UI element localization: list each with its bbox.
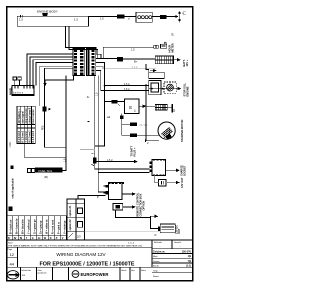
relay branch down (121, 114, 123, 136)
starter post connector (155, 105, 167, 110)
svg-text:Br = brown br: Br = brown br (15, 218, 18, 234)
svg-text:G = green gn: G = green gn (33, 219, 36, 234)
grey feed to capacitor (155, 176, 177, 183)
wire to panel pin2 (30, 57, 73, 85)
oil switch branch (122, 123, 130, 125)
charge socket label (vertical) (181, 165, 187, 176)
inline connector with lock (112, 100, 120, 106)
svg-text:Bl = blue blw: Bl = blue blw (21, 219, 24, 234)
wire to panel pin4 (36, 63, 73, 86)
svg-text:12: 12 (10, 252, 15, 257)
svg-text:B 1.5 mm2: B 1.5 mm2 (19, 130, 21, 142)
svg-text:only if applicable: only if applicable (12, 178, 15, 199)
battery terminal marks (179, 11, 181, 23)
svg-text:FOR EPS10000E / 12000TE / 1500: FOR EPS10000E / 12000TE / 15000TE (40, 261, 135, 267)
control box (103, 183, 124, 200)
svg-text:PANEL: PANEL (10, 87, 13, 95)
svg-text:ENGINE BODY: ENGINE BODY (37, 10, 58, 14)
svg-text:OPTION: OPTION (143, 201, 146, 211)
svg-text:(M): (M) (44, 176, 48, 179)
svg-text:1.5: 1.5 (74, 17, 78, 21)
control box labels (vertical) (137, 192, 146, 216)
bus pin ticks (21, 15, 23, 17)
svg-text:1.5 d: 1.5 d (124, 83, 130, 86)
branch arrow (151, 216, 155, 217)
svg-text:PLUS +: PLUS + (133, 147, 136, 156)
note square (8, 207, 12, 211)
feed wire lower (96, 71, 149, 91)
svg-text:Maßstab: Maßstab (154, 241, 163, 244)
hour meter (161, 42, 167, 48)
aux feed wire (96, 195, 105, 197)
note marker (vertical) (10, 165, 14, 198)
svg-text:12V OUT: 12V OUT (181, 177, 184, 188)
svg-text:stop solenoid: stop solenoid (25, 108, 28, 124)
svg-text:STARTER MOTOR: STARTER MOTOR (180, 119, 184, 142)
wire (123, 58, 155, 60)
svg-text:G: G (32, 237, 34, 240)
svg-text:R 1.5 mm2: R 1.5 mm2 (22, 130, 24, 142)
wiring table (17, 106, 35, 143)
svg-text:(1:1): (1:1) (186, 265, 191, 268)
svg-text:Blatt: Blatt (153, 255, 158, 258)
svg-text:EUROPOWER: EUROPOWER (81, 272, 109, 277)
svg-text:hour counter: hour counter (32, 109, 35, 123)
svg-text:Datum: Datum (153, 260, 160, 263)
svg-text:B+: B+ (134, 59, 138, 63)
engine ground bus box (17, 16, 88, 26)
svg-text:E.: E. (172, 33, 175, 37)
relay coil box (149, 72, 164, 78)
inline connector (160, 15, 167, 19)
svg-text:W = white wt: W = white wt (45, 219, 48, 234)
svg-text:Bearb.: Bearb. (153, 265, 160, 268)
arrowed battery branch (95, 161, 135, 163)
svg-text:Gr: Gr (38, 237, 41, 240)
svg-text:W 1.5 mm2: W 1.5 mm2 (30, 130, 32, 143)
svg-text:1.5: 1.5 (19, 17, 23, 21)
svg-text:V 1.2: V 1.2 (132, 66, 138, 69)
svg-text:12V +: 12V + (185, 59, 189, 66)
optional wire (grey) (40, 67, 73, 107)
arrow to battery + (174, 59, 178, 61)
wire to starter post (146, 105, 155, 107)
wire connector X1 to fuel solenoid (63, 76, 66, 171)
bottom row cells (21, 267, 141, 281)
svg-text:1.5: 1.5 (100, 17, 104, 21)
svg-text:12V battery +: 12V battery + (18, 108, 21, 123)
fuse link on panel feed (43, 107, 47, 112)
wire to fuse link (45, 68, 73, 106)
title block (7, 240, 193, 281)
wire option table to aux (78, 196, 96, 199)
svg-text:1_0_5: 1_0_5 (128, 243, 135, 245)
svg-text:44: 44 (10, 262, 15, 267)
wire to panel pin1 (27, 54, 73, 85)
svg-text:Gr = grey gr: Gr = grey gr (39, 220, 42, 234)
wire through relay (149, 88, 178, 90)
capacitor box (159, 180, 166, 186)
drawing frame (7, 7, 193, 281)
svg-text:Y = yellow gl: Y = yellow gl (27, 219, 30, 234)
inline connector (117, 57, 123, 62)
relay output arrow (139, 105, 143, 107)
svg-text:option A2: option A2 (69, 219, 72, 231)
motor ground wire (146, 140, 159, 142)
fuse holder F1 (136, 12, 152, 22)
svg-text:charge lamp B: charge lamp B (30, 107, 32, 123)
svg-text:Uten: Uten (38, 269, 42, 272)
svg-text:SOCKET: SOCKET (184, 165, 187, 176)
svg-text:start signal: start signal (21, 111, 24, 124)
sub box (113, 204, 123, 211)
connector X1 left half (73, 48, 85, 75)
stop solenoid pilot wire (146, 64, 149, 72)
starter relay S (118, 99, 140, 114)
control panel terminal strip (12, 85, 34, 95)
svg-text:1.5 b: 1.5 b (9, 142, 12, 148)
svg-text:R: R (50, 237, 52, 240)
hour meter label (vertical) (168, 43, 175, 52)
wire with arrow to battery (167, 16, 176, 18)
svg-text:Bl: Bl (20, 237, 23, 240)
wire from table to fuel solenoid (25, 144, 66, 158)
svg-text:V = violet pr: V = violet pr (63, 220, 66, 234)
wire to dc breaker (116, 210, 158, 228)
battery isolator (hatched) (155, 56, 173, 64)
svg-text:WIRING DIAGRAM 12V: WIRING DIAGRAM 12V (56, 252, 106, 257)
stop solenoid relay (149, 81, 161, 95)
dc breaker (160, 224, 175, 233)
connector X1 right half (87, 48, 96, 75)
svg-text:ENGINE: ENGINE (185, 86, 189, 96)
wire from connector bottom left (45, 76, 74, 84)
svg-text:FUEL SOL: FUEL SOL (39, 169, 53, 173)
svg-text:Norm: Norm (141, 270, 146, 272)
svg-text:OIL SW: OIL SW (139, 124, 148, 127)
svg-text:B: B (8, 237, 10, 240)
grey stub (80, 148, 95, 150)
svg-text:Gewicht: Gewicht (174, 241, 182, 244)
charging wire to battery (89, 16, 118, 18)
charge wire B+ (96, 58, 118, 60)
option table (67, 199, 85, 240)
breaker label (vertical) (174, 225, 181, 234)
wire (152, 16, 160, 18)
output wire to charge socket (166, 169, 177, 171)
svg-text:Note:: Note: (8, 242, 14, 245)
svg-text:Gepr.: Gepr. (153, 270, 159, 273)
colour code legend (7, 216, 67, 240)
wire from starter feed down (95, 102, 105, 147)
wire from fuse link down (45, 112, 67, 148)
inline connector (117, 15, 124, 19)
svg-text:2/3: 2/3 (77, 235, 81, 239)
svg-text:1.5 d: 1.5 d (107, 159, 113, 162)
svg-text:S: S (129, 105, 132, 111)
svg-text:G 1.5 mm2: G 1.5 mm2 (33, 130, 35, 142)
svg-text:THE WIRES MARKED WITH * ARE ON: THE WIRES MARKED WITH * ARE ONLY FITTED … (8, 244, 142, 247)
wire (124, 16, 136, 18)
svg-text:1.5 d: 1.5 d (124, 88, 130, 91)
battery plus label (vertical) (130, 145, 136, 156)
svg-text:Y 1.5 mm2: Y 1.5 mm2 (26, 130, 28, 142)
wire to control box (98, 76, 108, 192)
fuel solenoid (35, 167, 63, 178)
starter feed wire (105, 86, 112, 102)
optional grey wire (85, 230, 161, 232)
battery label (vertical) (182, 59, 189, 66)
logo oval (7, 271, 19, 279)
control box output arrows (122, 193, 132, 195)
svg-text:150 070: 150 070 (182, 250, 192, 254)
svg-text:geodezien: geodezien (38, 273, 47, 275)
svg-text:option A1: option A1 (69, 205, 72, 217)
svg-text:3: 3 (41, 127, 43, 131)
revision table (152, 240, 193, 278)
svg-text:Name: Name (153, 276, 160, 278)
svg-text:Getek.: Getek. (121, 269, 127, 272)
svg-text:P = pink rz: P = pink rz (57, 221, 60, 234)
wire to remote terminal 2 (98, 171, 149, 173)
wire pair from bus to connector (65, 26, 97, 58)
stop solenoid (164, 82, 176, 93)
dashed boundary wire right of connector (103, 47, 153, 58)
svg-text:Br: Br (14, 237, 17, 240)
connector symbol above engine bus (43, 13, 48, 16)
hour meter connector (154, 45, 159, 48)
grey optional wire (96, 67, 156, 69)
svg-text:1.5: 1.5 (131, 48, 135, 52)
spare connector symbols (13, 77, 21, 80)
svg-text:Gez.: Gez. (131, 270, 136, 272)
svg-text:R = red rood: R = red rood (51, 219, 54, 234)
page column (7, 247, 193, 267)
svg-text:B = black zw: B = black zw (9, 220, 12, 234)
svg-text:D: D (155, 233, 157, 237)
solenoid connector (28, 168, 35, 172)
battery cable with connector (95, 76, 150, 169)
svg-text:OUT: OUT (177, 228, 181, 234)
wire to panel pin3 (33, 60, 73, 86)
svg-text:Zeichn.nr.: Zeichn.nr. (153, 250, 166, 254)
breaker terminal (158, 227, 160, 231)
feed wire upper (96, 63, 149, 86)
svg-text:METER: METER (171, 43, 175, 52)
europower logo (72, 271, 108, 278)
engine connection box (149, 159, 165, 175)
svg-text:Initialen/on: Initialen/on (22, 269, 32, 272)
starter motor M (158, 122, 175, 140)
starter motor branch (122, 134, 130, 136)
svg-text:b a t e r s: b a t e r s (13, 92, 24, 95)
stop solenoid label (vertical) (182, 82, 189, 96)
wire from relay area down (145, 84, 147, 141)
